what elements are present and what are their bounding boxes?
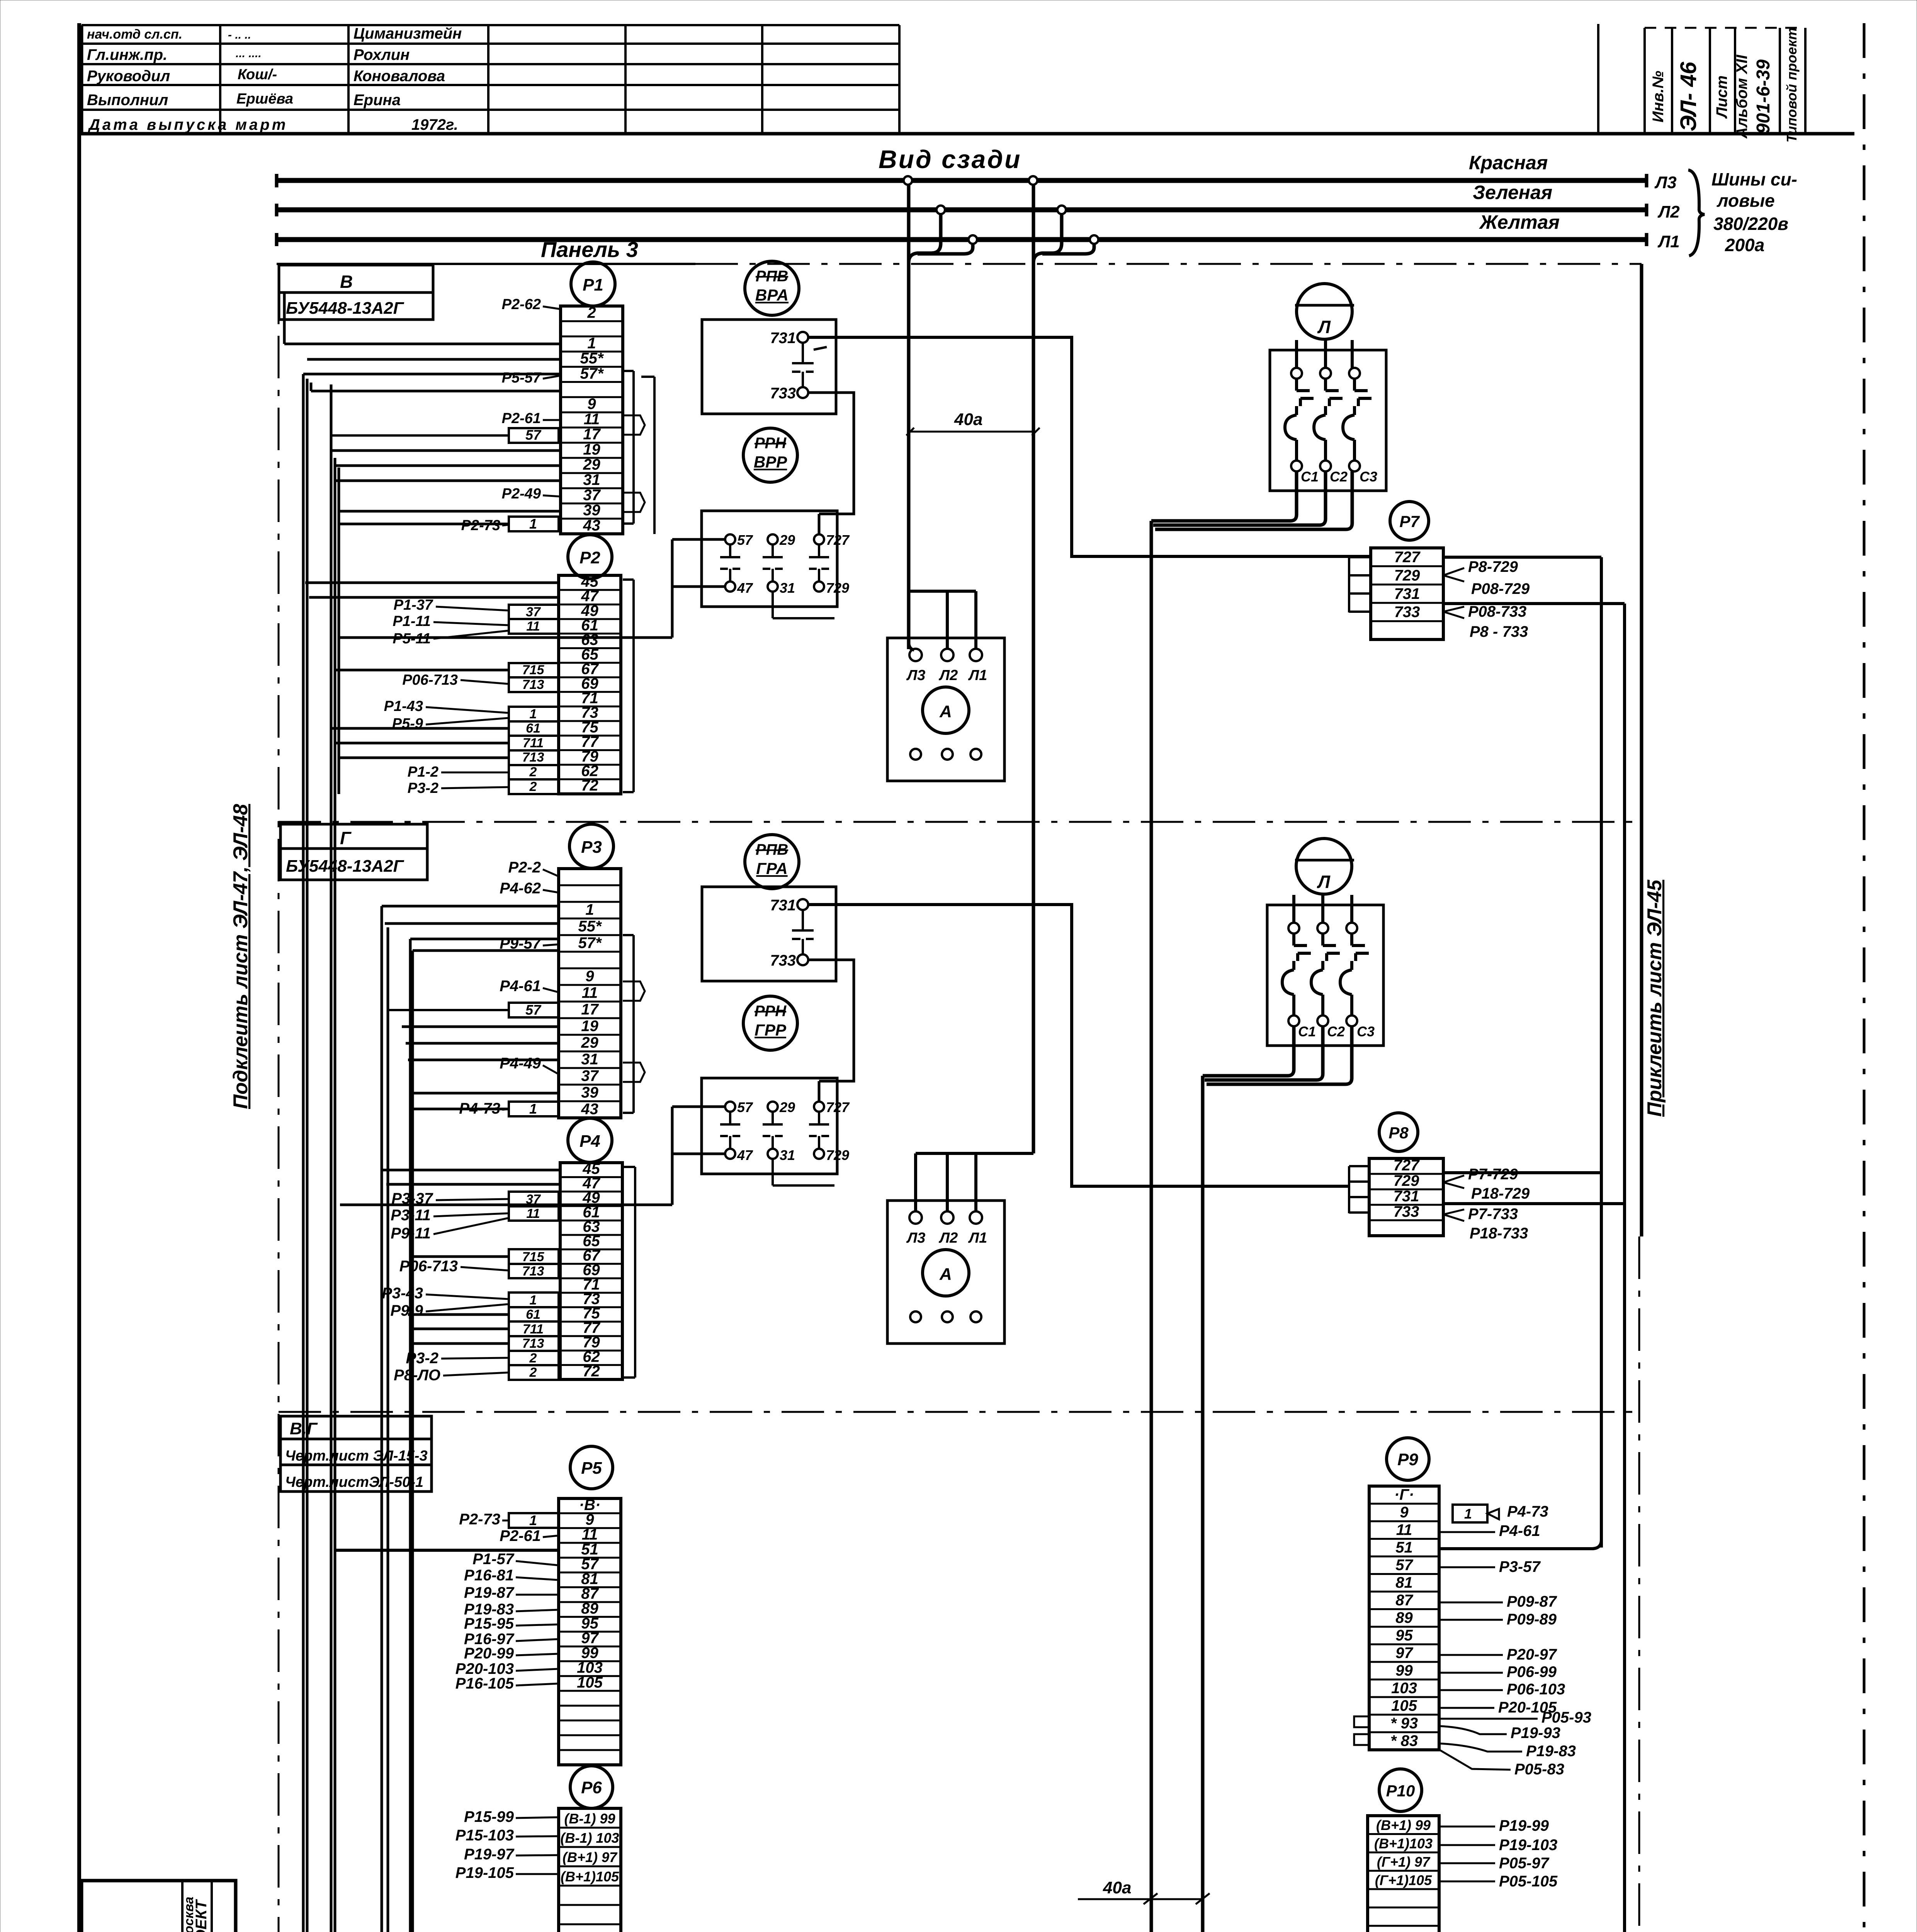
aux contact box G 57/29/727 (702, 1078, 837, 1174)
ammeter V feeders (909, 590, 976, 593)
R2 connector latches (632, 580, 635, 792)
svg-text:Л1: Л1 (1657, 232, 1680, 251)
relay VRA (745, 261, 799, 315)
svg-text:Гл.инж.пр.: Гл.инж.пр. (87, 46, 167, 63)
svg-text:нач.отд сл.сп.: нач.отд сл.сп. (87, 27, 182, 42)
svg-text:ГРР: ГРР (755, 1021, 787, 1039)
svg-text:С2: С2 (1330, 469, 1348, 485)
svg-text:Р8-729: Р8-729 (1468, 558, 1518, 575)
svg-text:ГРА: ГРА (756, 859, 787, 878)
panel boundary dash-dot (277, 263, 695, 265)
cable box G (280, 824, 427, 849)
R1 connector latches (632, 371, 635, 524)
svg-text:1: 1 (585, 901, 594, 918)
svg-text:* 93: * 93 (1390, 1715, 1418, 1732)
svg-text:С3: С3 (1357, 1024, 1375, 1039)
cable box VG (280, 1416, 432, 1439)
svg-text:1: 1 (587, 335, 596, 352)
svg-text:Р3-57: Р3-57 (1499, 1558, 1541, 1575)
svg-text:С1: С1 (1298, 1024, 1316, 1039)
svg-text:31: 31 (583, 471, 600, 488)
relay VRR (743, 428, 797, 482)
svg-text:С1: С1 (1301, 469, 1319, 485)
svg-text:Панель 3: Панель 3 (541, 237, 638, 262)
R4 connector latches (634, 1167, 636, 1378)
svg-text:Р4-62: Р4-62 (500, 880, 541, 897)
svg-text:Р7: Р7 (1399, 512, 1420, 531)
svg-text:Р1-2: Р1-2 (408, 764, 438, 780)
svg-text:Р2-2: Р2-2 (508, 859, 541, 876)
svg-text:Р1-11: Р1-11 (393, 613, 431, 629)
wire 731 G to R8 (808, 905, 1349, 1186)
svg-text:Р19-93: Р19-93 (1511, 1725, 1560, 1742)
svg-text:Л3: Л3 (906, 667, 925, 684)
svg-text:Приклеить лист ЭЛ-45: Приклеить лист ЭЛ-45 (1643, 879, 1666, 1117)
main stamp block (82, 1881, 236, 1932)
wire bundle top bends (303, 373, 561, 376)
svg-text:727: 727 (826, 532, 850, 548)
svg-text:Р3-2: Р3-2 (408, 780, 438, 796)
svg-text:Р08-733: Р08-733 (1468, 603, 1526, 620)
svg-text:Р3-43: Р3-43 (382, 1285, 423, 1302)
svg-text:57: 57 (737, 1099, 753, 1115)
svg-text:1: 1 (529, 1512, 537, 1528)
svg-text:Кош/-: Кош/- (238, 66, 277, 83)
svg-text:29: 29 (583, 456, 600, 473)
svg-text:97: 97 (1395, 1645, 1413, 1662)
svg-text:Альбом XII: Альбом XII (1733, 54, 1750, 139)
svg-text:Р16-81: Р16-81 (464, 1567, 514, 1584)
svg-text:Р2-62: Р2-62 (502, 296, 541, 313)
aux contact box VRA 731-733 (702, 320, 836, 414)
svg-text:РПВ: РПВ (756, 841, 788, 858)
svg-text:Р1-57: Р1-57 (472, 1551, 514, 1568)
svg-text:727: 727 (1394, 1157, 1420, 1174)
svg-text:... ....: ... .... (236, 47, 262, 60)
svg-text:Р08-729: Р08-729 (1471, 580, 1530, 597)
svg-text:Р4-61: Р4-61 (1499, 1522, 1540, 1539)
svg-text:(В+1) 97: (В+1) 97 (563, 1849, 618, 1865)
svg-text:(В+1)105: (В+1)105 (561, 1869, 619, 1884)
svg-text:57*: 57* (578, 935, 602, 952)
svg-text:89: 89 (1395, 1609, 1413, 1626)
svg-text:Л3: Л3 (906, 1230, 925, 1246)
svg-text:47: 47 (737, 580, 753, 596)
ammeter A V (923, 687, 969, 733)
svg-text:1: 1 (530, 707, 537, 721)
svg-text:29: 29 (779, 532, 795, 548)
svg-text:Р8: Р8 (1388, 1124, 1409, 1142)
svg-text:57: 57 (737, 532, 753, 548)
svg-text:61: 61 (526, 1307, 540, 1322)
svg-text:Р09-87: Р09-87 (1507, 1593, 1557, 1610)
svg-text:40а: 40а (954, 410, 982, 429)
svg-text:55*: 55* (578, 918, 602, 935)
svg-text:99: 99 (1395, 1662, 1413, 1679)
svg-text:(В+1)103: (В+1)103 (1374, 1836, 1433, 1852)
svg-text:Р1: Р1 (583, 276, 603, 294)
R8 left comb (1348, 1166, 1350, 1213)
terminal block R2 (568, 535, 612, 579)
svg-text:Подклеить лист ЭЛ-47, ЭЛ-48: Подклеить лист ЭЛ-47, ЭЛ-48 (229, 804, 252, 1109)
R2 wires to bundle (305, 582, 559, 584)
svg-text:Г: Г (340, 828, 352, 848)
svg-text:Л2: Л2 (1657, 202, 1680, 221)
svg-text:Л1: Л1 (968, 1230, 987, 1246)
svg-text:В,Г: В,Г (290, 1419, 318, 1438)
svg-text:43: 43 (581, 1101, 598, 1118)
svg-text:200а: 200а (1725, 235, 1764, 255)
svg-text:57: 57 (525, 427, 542, 443)
svg-text:31: 31 (780, 1147, 795, 1163)
R1 wires to bundle (335, 464, 561, 467)
svg-text:901-6-39: 901-6-39 (1753, 60, 1774, 134)
R9 right labels (1453, 1505, 1487, 1522)
svg-text:57: 57 (1395, 1556, 1413, 1573)
riser B (1623, 604, 1626, 1932)
svg-text:Р1-43: Р1-43 (384, 698, 423, 714)
svg-text:Зеленая: Зеленая (1473, 182, 1552, 203)
svg-text:Дата выпуска март: Дата выпуска март (88, 116, 288, 133)
svg-text:727: 727 (826, 1099, 850, 1115)
svg-text:Черт.листЭЛ-50-1: Черт.листЭЛ-50-1 (285, 1474, 423, 1490)
svg-text:43: 43 (583, 517, 600, 534)
svg-text:715: 715 (522, 663, 545, 677)
svg-text:(Г+1) 97: (Г+1) 97 (1377, 1854, 1431, 1870)
svg-text:Черт.лист ЭЛ-15-3: Черт.лист ЭЛ-15-3 (285, 1448, 428, 1464)
svg-text:Р16-105: Р16-105 (455, 1675, 514, 1692)
svg-text:Р05-105: Р05-105 (1499, 1873, 1558, 1890)
svg-text:31: 31 (581, 1051, 598, 1068)
wire bundle left section V (302, 374, 305, 1932)
svg-text:2: 2 (529, 765, 537, 779)
svg-text:Л1: Л1 (968, 667, 987, 684)
wire 731 to R7 (808, 337, 1371, 556)
svg-text:(В+1) 99: (В+1) 99 (1376, 1817, 1431, 1833)
svg-text:11: 11 (526, 619, 540, 634)
svg-text:ловые: ловые (1716, 190, 1775, 211)
svg-text:1: 1 (530, 1293, 537, 1308)
terminal block R6 (570, 1766, 613, 1808)
svg-text:Р18-733: Р18-733 (1470, 1225, 1528, 1242)
svg-text:105: 105 (577, 1674, 603, 1691)
terminal block R3 (569, 824, 614, 868)
bus tap junctions group 1 (904, 176, 912, 185)
svg-text:1: 1 (529, 1101, 537, 1117)
svg-text:Ерина: Ерина (353, 92, 401, 109)
svg-text:А: А (939, 1265, 952, 1284)
svg-text:55*: 55* (580, 350, 604, 367)
svg-text:- .. ..: - .. .. (228, 29, 251, 41)
svg-text:Р06-713: Р06-713 (402, 672, 458, 688)
svg-text:19: 19 (583, 441, 600, 458)
terminal block R5 (570, 1446, 613, 1489)
contactor G C1C2C3 (1267, 905, 1383, 1046)
svg-text:Р19-83: Р19-83 (1526, 1743, 1576, 1760)
svg-text:(Г+1)105: (Г+1)105 (1375, 1872, 1432, 1888)
svg-text:2: 2 (529, 1365, 537, 1380)
svg-text:Р15-95: Р15-95 (464, 1615, 514, 1632)
svg-text:733: 733 (1394, 604, 1420, 621)
svg-text:Выполнил: Выполнил (87, 92, 168, 109)
svg-text:Р9-57: Р9-57 (500, 935, 541, 952)
svg-text:9: 9 (585, 968, 594, 985)
svg-text:ВРР: ВРР (754, 453, 787, 471)
svg-text:Р06-103: Р06-103 (1507, 1681, 1565, 1698)
R9 left tiny tabs (1354, 1716, 1369, 1727)
contactor G output wires (1203, 1026, 1294, 1076)
glue line right (1863, 23, 1866, 1932)
brace bus group (1688, 170, 1705, 256)
svg-text:1: 1 (529, 516, 537, 532)
svg-text:Р19-97: Р19-97 (464, 1846, 515, 1863)
svg-text:·Г·: ·Г· (1394, 1486, 1414, 1503)
svg-text:Р06-713: Р06-713 (399, 1258, 458, 1275)
svg-text:19: 19 (581, 1018, 598, 1035)
power bus L2 green (277, 207, 1647, 213)
svg-text:37: 37 (581, 1068, 599, 1085)
svg-text:380/220в: 380/220в (1713, 214, 1788, 234)
svg-text:72: 72 (583, 1363, 600, 1380)
svg-text:Р4: Р4 (580, 1132, 600, 1151)
feeder down to motor G (1201, 1078, 1205, 1932)
wire 733 (808, 393, 854, 514)
wire R9 row 51 to riser A (1439, 1540, 1601, 1549)
svg-text:729: 729 (1394, 567, 1420, 584)
power bus L3 red (277, 178, 1647, 183)
svg-text:Л3: Л3 (1654, 173, 1677, 192)
svg-text:39: 39 (583, 502, 600, 519)
terminal block R9 (1387, 1438, 1429, 1480)
R7 left comb (1348, 557, 1350, 612)
bus tap junctions group 2 (1033, 214, 1062, 263)
svg-text:С2: С2 (1327, 1024, 1345, 1039)
svg-text:Р8-ЛО: Р8-ЛО (394, 1367, 440, 1384)
svg-text:727: 727 (1394, 549, 1421, 566)
feeder down to motor V (1150, 523, 1153, 1932)
svg-text:713: 713 (522, 1264, 544, 1279)
terminal block R4 (568, 1118, 612, 1162)
svg-text:729: 729 (826, 1147, 849, 1163)
svg-text:731: 731 (770, 897, 796, 914)
svg-text:39: 39 (581, 1084, 598, 1101)
svg-text:9: 9 (587, 395, 596, 412)
terminal block R10 (1379, 1769, 1422, 1811)
ammeter G feeders (916, 1152, 1033, 1155)
svg-text:733: 733 (770, 952, 796, 969)
lamp L G (1296, 838, 1352, 894)
svg-text:Р8 - 733: Р8 - 733 (1470, 623, 1528, 640)
wires R7 to right risers (1443, 556, 1601, 559)
R3 wires to bundle (406, 1042, 559, 1045)
lamp L V (1297, 284, 1352, 339)
svg-text:Инв.№: Инв.№ (1650, 71, 1667, 122)
svg-text:Руководил: Руководил (87, 68, 170, 85)
svg-text:Коновалова: Коновалова (353, 68, 445, 85)
R3 connector latches (632, 935, 635, 1113)
contactor V C1C2C3 (1270, 350, 1386, 491)
wire 733 G (808, 960, 854, 1081)
svg-text:(В-1) 99: (В-1) 99 (564, 1811, 615, 1827)
power bus L1 yellow (277, 237, 1647, 242)
svg-text:Р15-103: Р15-103 (455, 1827, 514, 1844)
svg-text:Р20-97: Р20-97 (1507, 1646, 1557, 1663)
svg-text:51: 51 (1395, 1539, 1413, 1556)
R4 wires to bundle (382, 1169, 560, 1172)
svg-text:Р20-99: Р20-99 (464, 1645, 514, 1662)
svg-text:711: 711 (523, 736, 544, 750)
svg-text:2: 2 (529, 1351, 537, 1366)
svg-text:17: 17 (583, 426, 601, 443)
relay GRA (745, 835, 799, 889)
svg-text:Р3-11: Р3-11 (391, 1207, 431, 1224)
svg-text:Р2-73: Р2-73 (461, 517, 500, 534)
svg-text:29: 29 (581, 1034, 598, 1051)
feeder G down to ammeter G (1032, 184, 1035, 1153)
svg-text:713: 713 (522, 1336, 544, 1351)
svg-text:11: 11 (526, 1206, 540, 1221)
feeder V down to ammeter V (907, 184, 911, 649)
svg-text:г.Москва: г.Москва (182, 1897, 196, 1932)
svg-text:731: 731 (1394, 1188, 1419, 1205)
contactor V output wires (1151, 471, 1297, 521)
svg-text:* 83: * 83 (1390, 1732, 1418, 1749)
svg-text:Р19-99: Р19-99 (1499, 1817, 1549, 1834)
svg-text:Рохлин: Рохлин (353, 46, 410, 63)
svg-text:(В-1) 103: (В-1) 103 (560, 1830, 619, 1846)
svg-text:Р4-61: Р4-61 (500, 978, 541, 995)
svg-text:11: 11 (584, 411, 600, 428)
svg-text:Р15-99: Р15-99 (464, 1808, 514, 1825)
svg-text:Р6: Р6 (581, 1778, 602, 1797)
ammeter A G (923, 1250, 969, 1296)
svg-text:БУ5448-13А2Г: БУ5448-13А2Г (286, 299, 404, 318)
svg-text:ВРА: ВРА (755, 286, 789, 304)
svg-text:1972г.: 1972г. (411, 116, 458, 133)
svg-text:Л: Л (1317, 872, 1331, 892)
svg-text:Р19-103: Р19-103 (1499, 1837, 1557, 1854)
svg-text:Р18-729: Р18-729 (1471, 1185, 1530, 1202)
svg-text:Р9-9: Р9-9 (391, 1302, 423, 1319)
svg-text:БУ5448-13А2Г: БУ5448-13А2Г (286, 857, 404, 876)
aux contact box 57/29/727 (702, 511, 837, 607)
svg-text:61: 61 (526, 721, 540, 736)
svg-text:Р2: Р2 (580, 548, 600, 567)
svg-text:Ершёва: Ершёва (236, 91, 293, 107)
svg-text:Желтая: Желтая (1479, 211, 1560, 233)
svg-text:Циманизтейн: Циманизтейн (353, 25, 462, 42)
aux contact box GRA 731-733 (702, 887, 836, 981)
svg-text:Р05-93: Р05-93 (1541, 1709, 1591, 1726)
svg-text:47: 47 (737, 1147, 753, 1163)
svg-text:ЭЛ- 46: ЭЛ- 46 (1676, 61, 1701, 131)
svg-text:72: 72 (581, 777, 598, 794)
svg-text:Р3-2: Р3-2 (406, 1350, 439, 1367)
svg-text:Р06-99: Р06-99 (1507, 1663, 1557, 1680)
svg-text:1: 1 (1464, 1506, 1472, 1522)
svg-text:37: 37 (583, 486, 601, 503)
svg-text:Р3: Р3 (581, 838, 602, 857)
svg-text:713: 713 (522, 677, 544, 692)
svg-text:РРН: РРН (755, 435, 787, 452)
svg-text:40а: 40а (1103, 1878, 1131, 1897)
svg-text:Р2-61: Р2-61 (502, 410, 541, 427)
svg-text:Л2: Л2 (938, 667, 958, 684)
cable box V (279, 265, 433, 293)
svg-text:37: 37 (526, 605, 541, 619)
svg-text:В: В (340, 272, 353, 292)
svg-text:729: 729 (1394, 1172, 1419, 1189)
terminal block R8 (1379, 1113, 1418, 1151)
sheet frame (77, 23, 81, 1932)
svg-text:Р7-733: Р7-733 (1468, 1206, 1518, 1223)
svg-text:17: 17 (581, 1001, 599, 1018)
svg-text:Типовой проект: Типовой проект (1784, 27, 1800, 143)
svg-text:103: 103 (1391, 1680, 1417, 1697)
svg-text:Шины си-: Шины си- (1711, 169, 1797, 189)
svg-text:11: 11 (1396, 1521, 1412, 1538)
svg-text:711: 711 (523, 1322, 544, 1337)
svg-text:Р5-57: Р5-57 (502, 370, 542, 386)
svg-text:715: 715 (522, 1250, 545, 1264)
svg-text:31: 31 (780, 580, 795, 596)
svg-text:Р9-11: Р9-11 (391, 1225, 431, 1242)
svg-text:733: 733 (1394, 1203, 1419, 1220)
svg-text:Р4-49: Р4-49 (500, 1055, 541, 1072)
svg-text:11: 11 (582, 985, 598, 1002)
terminal block R1 (571, 262, 615, 306)
svg-text:С3: С3 (1360, 469, 1377, 485)
svg-text:Р10: Р10 (1386, 1782, 1415, 1800)
svg-text:Р09-89: Р09-89 (1507, 1611, 1557, 1628)
ammeter box G (887, 1201, 1004, 1344)
svg-text:Р05-83: Р05-83 (1514, 1761, 1564, 1778)
svg-text:Р19-87: Р19-87 (464, 1584, 515, 1601)
svg-text:Р4-73: Р4-73 (1507, 1503, 1548, 1520)
svg-text:Р5: Р5 (581, 1459, 602, 1478)
svg-text:2: 2 (529, 779, 537, 794)
terminal block R7 (1390, 502, 1429, 540)
svg-text:Р1-37: Р1-37 (394, 597, 433, 613)
svg-text:9: 9 (1400, 1504, 1409, 1521)
bundle left section G bends (382, 905, 559, 908)
svg-text:Л2: Л2 (938, 1230, 958, 1246)
ammeter box V (887, 638, 1004, 781)
svg-text:57*: 57* (580, 365, 604, 382)
svg-text:Р05-97: Р05-97 (1499, 1855, 1550, 1872)
svg-text:733: 733 (770, 385, 796, 402)
svg-text:Р2-73: Р2-73 (459, 1511, 500, 1528)
svg-text:Л: Л (1317, 317, 1331, 337)
wires R8 to risers (1443, 1171, 1601, 1174)
svg-text:Р19-105: Р19-105 (455, 1864, 514, 1881)
svg-text:Лист: Лист (1713, 75, 1730, 119)
svg-text:731: 731 (770, 330, 796, 347)
svg-text:57: 57 (525, 1002, 542, 1018)
corner stamp strips (1597, 24, 1599, 134)
svg-text:Р2-49: Р2-49 (502, 486, 541, 502)
riser A (1600, 557, 1603, 1548)
svg-text:2: 2 (587, 304, 596, 321)
svg-text:Вид сзади: Вид сзади (879, 145, 1021, 173)
svg-text:Красная: Красная (1469, 152, 1548, 173)
title table top-left (82, 24, 899, 26)
svg-text:81: 81 (1395, 1574, 1413, 1591)
svg-text:95: 95 (1395, 1627, 1413, 1644)
svg-text:Р2-61: Р2-61 (500, 1527, 541, 1544)
svg-text:29: 29 (779, 1099, 795, 1115)
svg-text:А: А (939, 702, 952, 721)
